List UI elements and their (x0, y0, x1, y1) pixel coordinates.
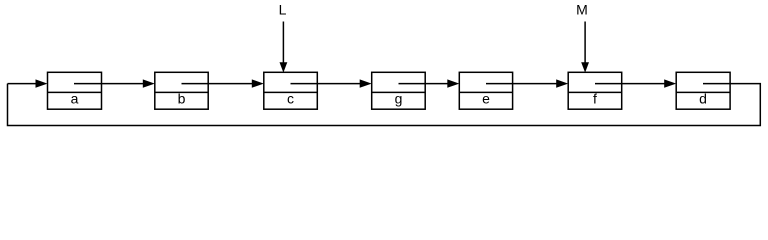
node a label (71, 91, 79, 107)
pointer wire f to d (595, 83, 665, 85)
node g label (395, 91, 403, 107)
wire loop into node a (8, 83, 37, 85)
svg-text:f: f (593, 91, 597, 107)
pointer wire c to g (291, 83, 361, 85)
arrowhead into node g (360, 79, 372, 87)
node g box (372, 72, 426, 109)
node a box (48, 72, 102, 109)
node c label (287, 91, 294, 107)
node b box (155, 72, 208, 109)
svg-text:a: a (71, 91, 79, 107)
node b label (178, 91, 186, 107)
node f label (593, 91, 597, 107)
svg-text:d: d (699, 91, 707, 107)
M pointer arrow down to node f (584, 22, 586, 64)
arrowhead into node a (36, 79, 48, 87)
pointer wire e to f (486, 83, 557, 85)
node c box (264, 72, 318, 109)
pointer wire a to b (74, 83, 144, 85)
circular wire from node d around bottom back to node a (8, 84, 761, 126)
node f box (568, 72, 622, 109)
arrowhead into node e (447, 79, 459, 87)
L arrowhead (280, 62, 288, 72)
svg-text:g: g (395, 91, 403, 107)
svg-text:M: M (576, 2, 588, 18)
node d label (699, 91, 707, 107)
svg-text:L: L (279, 2, 287, 18)
arrowhead into node c (252, 79, 264, 87)
pointer wire g to e (399, 83, 449, 85)
svg-text:c: c (287, 91, 294, 107)
arrowhead into node d (664, 79, 676, 87)
node e label (482, 91, 490, 107)
label L (279, 2, 287, 18)
svg-text:e: e (482, 91, 490, 107)
L pointer arrow down to node c (282, 22, 284, 64)
node d box (676, 72, 730, 109)
arrowhead into node f (556, 79, 568, 87)
node e box (459, 72, 512, 109)
svg-text:b: b (178, 91, 186, 107)
M arrowhead (581, 62, 589, 72)
arrowhead into node b (143, 79, 155, 87)
label M (576, 2, 588, 18)
pointer wire b to c (182, 83, 253, 85)
